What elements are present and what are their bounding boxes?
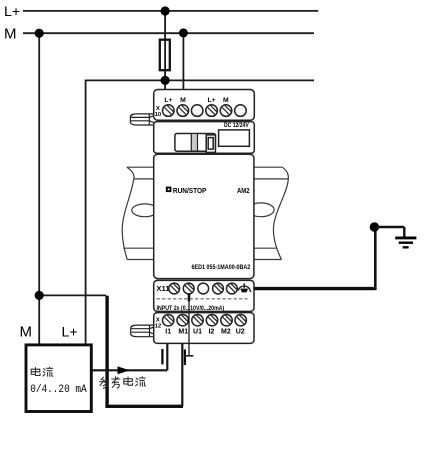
wire M drop to module terminal (182, 33, 184, 89)
svg-text:INPUT 2x (0...10V/0...20mA): INPUT 2x (0...10V/0...20mA) (157, 306, 225, 312)
wire M1 terminal down (181, 343, 183, 406)
cable mark bar at I1 (161, 349, 163, 364)
dashed separator (157, 298, 248, 300)
svg-text:10: 10 (155, 112, 162, 118)
liu (136, 377, 146, 386)
sensor box current source (26, 345, 91, 412)
svg-text:M: M (180, 97, 186, 104)
module X11 section (154, 280, 254, 311)
terminal screws X11 (169, 283, 238, 294)
node junction dot on sensor M wire (35, 291, 44, 300)
module mid section with latch (154, 122, 255, 154)
wire X11 reference down with tick (188, 294, 190, 356)
module AM2: top terminal section X10 (154, 90, 255, 121)
svg-text:U1: U1 (193, 328, 202, 335)
node junction dot below fuse (161, 76, 170, 85)
sensor text dianliu (CJK) (31, 367, 53, 376)
wire to ground symbol (374, 227, 404, 237)
wire L+ drop to fuse and module terminal (164, 11, 166, 90)
wire module earth to ground (254, 287, 375, 290)
svg-text:M2: M2 (221, 328, 231, 335)
functional earth icon on X11 (238, 283, 251, 292)
svg-text:M: M (4, 26, 17, 43)
svg-text:AM2: AM2 (237, 188, 250, 195)
wire sensor output to I1 (92, 343, 167, 370)
svg-text:M: M (223, 97, 229, 104)
svg-text:12: 12 (155, 323, 162, 329)
X12 terminal names (165, 328, 245, 335)
svg-text:DC 12/24V: DC 12/24V (224, 123, 249, 129)
node junction dot on L+ rail (161, 6, 170, 15)
svg-text:RUN/STOP: RUN/STOP (173, 188, 207, 195)
L+ supply rail (23, 10, 318, 12)
node junction dot M rail to sensor (35, 29, 44, 38)
svg-text:L+: L+ (62, 325, 78, 341)
wire M rail down to sensor M (38, 33, 40, 344)
svg-text:L+: L+ (207, 97, 215, 104)
reference current label (CJK) (100, 377, 146, 389)
module X12 section (154, 313, 254, 344)
svg-text:L+: L+ (164, 97, 172, 104)
reference current loop thick wire (105, 296, 108, 407)
dian (124, 377, 133, 385)
node junction dot on M rail (179, 28, 188, 37)
wire sensor L+ drop from fused rail (85, 80, 87, 344)
svg-text:X11: X11 (156, 284, 169, 293)
ground symbol (395, 238, 416, 247)
DIN rail right piece (247, 167, 288, 259)
can (100, 377, 109, 388)
arrowhead reference current (118, 366, 130, 374)
svg-text:M: M (20, 324, 33, 341)
svg-text:U2: U2 (236, 328, 245, 335)
svg-text:I1: I1 (165, 328, 171, 335)
svg-text:L+: L+ (4, 4, 20, 20)
fused branch rail (85, 79, 314, 81)
terminal screws X10 (163, 105, 247, 117)
cable mark bar at M1 (184, 350, 186, 366)
svg-text:6ED1 055-1MA00-0BA2: 6ED1 055-1MA00-0BA2 (192, 265, 251, 271)
svg-text:I2: I2 (208, 328, 214, 335)
terminal screws X12 (163, 315, 247, 326)
kao (112, 377, 120, 388)
node junction dot earth (370, 222, 379, 231)
svg-text:X: X (156, 106, 160, 112)
fuse F1 (160, 40, 170, 70)
svg-text:0/4..20 mA: 0/4..20 mA (30, 384, 87, 396)
module main body (154, 154, 254, 278)
svg-text:M1: M1 (178, 328, 188, 335)
expansion connector plug top-left (130, 114, 153, 125)
expansion connector plug bottom-left (131, 325, 154, 337)
DIN rail left piece (122, 167, 158, 259)
M supply rail (23, 32, 314, 34)
wire branch to reference loop (39, 294, 106, 296)
RUN/STOP LED (166, 187, 172, 193)
